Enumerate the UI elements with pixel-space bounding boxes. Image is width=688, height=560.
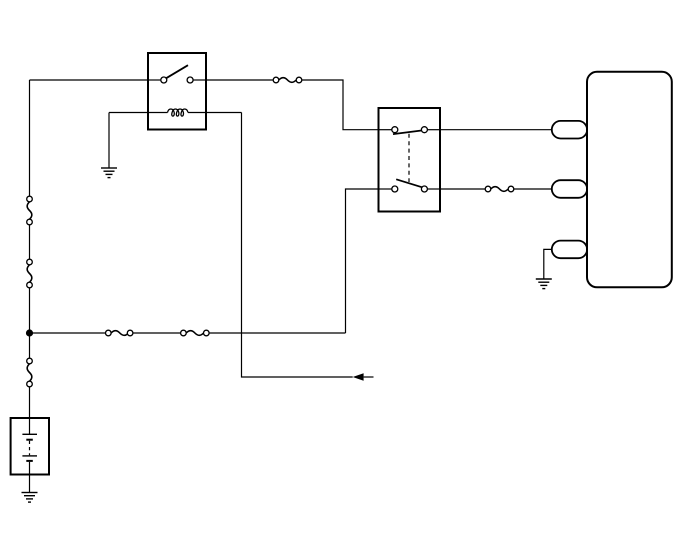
ground: module ground at pin 3 — [536, 279, 552, 289]
wire: switch S1 lower output to fuse F6 — [440, 188, 485, 190]
wire: from fuse F3 right then down to switch box row 1 — [302, 80, 379, 130]
node: junction of battery feed and distribution wire — [26, 329, 33, 336]
switch S1 lower contacts — [392, 186, 428, 192]
wire: from fuse F7 down into battery box — [29, 387, 31, 435]
wire: left vertical between fuses — [29, 225, 31, 259]
wire: switch S1 upper stub left — [379, 129, 392, 131]
wire: switch S1 lower stub left — [379, 188, 392, 190]
wire: relay ground drop — [108, 113, 110, 169]
switch S1 upper contacts — [392, 127, 428, 133]
wire: relay switch output to fuse F3 — [206, 79, 273, 81]
connector pin 1 — [552, 121, 587, 139]
switch S1 box (ganged double switch) — [379, 108, 441, 212]
wire: left vertical from junction to fuse F7 — [29, 333, 31, 358]
ground: battery ground — [22, 493, 38, 503]
wire: distribution wire from fuse F5 to switch feed vertical — [209, 332, 345, 334]
switch S1 gang link (dashed) — [408, 134, 410, 182]
fuse F6 before connector pin 2 — [485, 186, 514, 192]
fuse F4 on distribution wire — [106, 330, 133, 336]
wire: distribution wire between fuses — [133, 332, 181, 334]
fuse F1 on left vertical (upper) — [27, 196, 33, 225]
switch S1 lower blade — [396, 179, 422, 187]
wire: switch S1 upper output to connector pin 1 — [440, 129, 552, 131]
wire: relay coil control drop and run to arrow — [242, 113, 353, 378]
relay K1 switch blade — [166, 65, 188, 78]
wire: distribution horizontal from junction to fuse F4 — [30, 332, 106, 334]
wire: switch S1 lower feed from distribution wire — [346, 189, 379, 333]
ground: relay coil ground — [101, 168, 117, 178]
battery BT1 plates — [22, 434, 37, 461]
wire: relay coil lead right to corner — [188, 112, 242, 114]
connector pin 3 — [552, 241, 587, 259]
wire: battery negative to ground — [29, 462, 31, 493]
fuse F3 after relay switch — [273, 77, 302, 83]
wire: left vertical from fuse F2 down to junction — [29, 288, 31, 333]
relay K1 switch contacts — [161, 77, 193, 83]
wire: switch S1 lower stub right — [427, 188, 440, 190]
connector pin 2 — [552, 180, 587, 198]
fuse F7 between junction and battery — [27, 358, 33, 387]
wire: connector pin 3 ground drop — [544, 249, 552, 279]
wire: relay coil lead left (to ground wire) — [109, 112, 168, 114]
fuse F5 on distribution wire — [181, 330, 210, 336]
wire: top horizontal from left vertical to relay box — [30, 79, 149, 81]
fuse F2 on left vertical (lower) — [27, 259, 33, 288]
wire: relay switch stub right inside box — [193, 79, 206, 81]
arrow: off-page connector pointing left — [353, 373, 374, 381]
module U1 (control unit) — [587, 72, 672, 287]
switch S1 upper blade — [393, 131, 422, 135]
wire: switch S1 upper stub right — [427, 129, 440, 131]
wire: left vertical upper segment — [29, 80, 31, 199]
wire: relay switch stub left inside box — [148, 79, 161, 81]
battery BT1 box — [11, 418, 49, 475]
wire: fuse F6 to connector pin 2 — [514, 188, 552, 190]
relay K1 box — [148, 53, 206, 130]
relay K1 coil — [168, 109, 188, 116]
